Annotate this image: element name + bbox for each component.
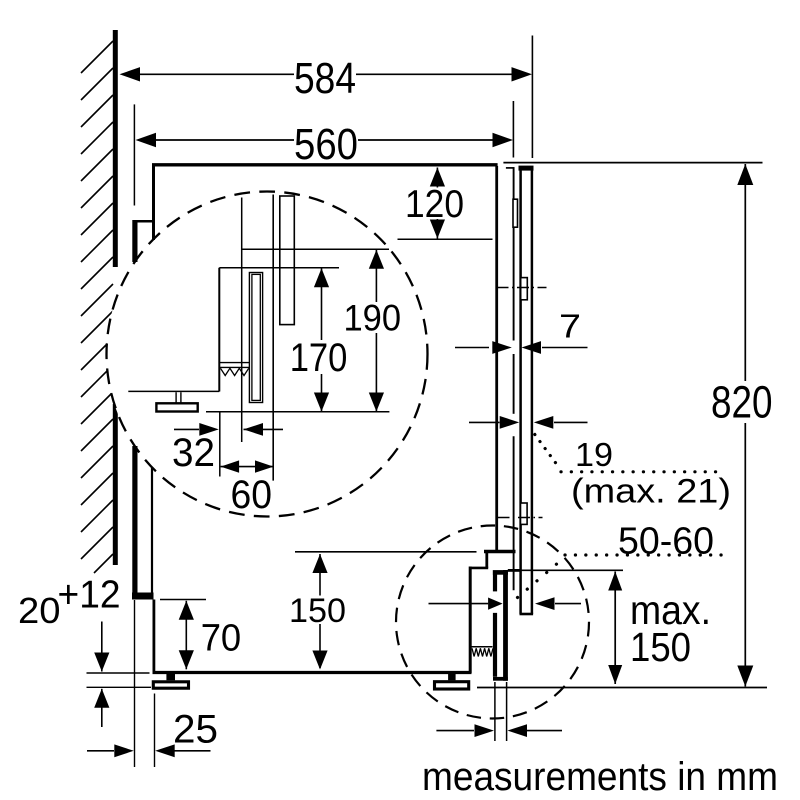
bottom serration teeth bbox=[472, 648, 493, 656]
detail slide rect outer bbox=[249, 273, 262, 403]
hinge 2 plate bbox=[521, 503, 528, 524]
hinge 1 plate bbox=[521, 278, 528, 300]
detail screw line B bbox=[272, 195, 274, 481]
svg-text:7: 7 bbox=[559, 308, 581, 345]
dim channel width (bottom) bbox=[436, 682, 562, 741]
dim max150 bbox=[608, 572, 622, 685]
dim 560 bbox=[134, 101, 513, 206]
bracket flange to panel bbox=[508, 569, 520, 572]
door panel bottom cap bbox=[520, 613, 534, 616]
detail serration teeth bbox=[221, 368, 249, 375]
detail bottom line bbox=[128, 390, 219, 392]
door panel left edge bbox=[519, 166, 522, 614]
channel bottom cap bbox=[493, 677, 508, 681]
dim 19 arrows bbox=[469, 416, 588, 429]
svg-text:50-60: 50-60 bbox=[618, 521, 714, 563]
svg-text:60: 60 bbox=[231, 473, 273, 517]
svg-text:70: 70 bbox=[201, 618, 242, 660]
dotted leader 19 bbox=[535, 435, 717, 472]
dim 50-60 arrows (bottom) bbox=[429, 597, 582, 610]
rear panel lower segment bbox=[132, 446, 137, 593]
dim 70 bbox=[160, 600, 206, 670]
svg-text:584: 584 bbox=[294, 54, 356, 103]
svg-text:820: 820 bbox=[711, 377, 773, 428]
detail slide rect inner bbox=[252, 274, 260, 400]
detail 190/170 bottom extension line bbox=[206, 411, 389, 413]
detail foot plate bbox=[156, 403, 197, 411]
svg-text:150: 150 bbox=[630, 624, 691, 670]
wall line lower segment bbox=[113, 404, 118, 565]
channel right wall bbox=[503, 570, 508, 681]
detail 170 extension line bbox=[219, 267, 339, 269]
svg-text:190: 190 bbox=[344, 298, 402, 339]
svg-text:120: 120 bbox=[405, 183, 464, 226]
left foot stem bbox=[166, 673, 175, 680]
door panel right edge bbox=[531, 166, 534, 614]
dim 190 bbox=[369, 250, 384, 412]
countertop underside line bbox=[503, 162, 762, 164]
floor line right bbox=[477, 687, 767, 689]
left foot plate bbox=[153, 682, 188, 688]
dim 584 bbox=[120, 36, 533, 159]
rear panel bottom cap bbox=[132, 593, 154, 600]
channel left wall lower bbox=[493, 613, 497, 677]
svg-text:+12: +12 bbox=[58, 574, 121, 617]
dim 20+12 lines bbox=[87, 622, 152, 728]
svg-text:20: 20 bbox=[18, 590, 61, 631]
channel left wall upper bbox=[493, 575, 497, 592]
dim 25 bbox=[87, 600, 211, 767]
svg-text:19: 19 bbox=[575, 437, 613, 474]
inner right line hook bbox=[506, 167, 515, 169]
detail circle content: screw line A bbox=[241, 198, 243, 443]
right foot stem bbox=[448, 672, 456, 680]
inner right line segments bbox=[513, 167, 515, 340]
dim 60 bbox=[221, 460, 274, 472]
wall hatching bbox=[81, 41, 113, 573]
detail fixing strip R1 bbox=[280, 196, 295, 325]
svg-text:32: 32 bbox=[172, 431, 215, 475]
detail circle (dashed) bbox=[107, 192, 428, 517]
right step bar bbox=[484, 550, 516, 554]
right lower wall bbox=[469, 567, 472, 674]
detail serration lines bbox=[219, 362, 249, 364]
detail top line H1 bbox=[242, 248, 389, 250]
white knockout of detail circle over wall bbox=[107, 192, 428, 517]
svg-text:25: 25 bbox=[173, 708, 218, 752]
right foot plate bbox=[435, 682, 469, 689]
label 190 bbox=[342, 298, 404, 339]
detail bracket left plate bbox=[218, 268, 220, 392]
appliance top edge bbox=[152, 163, 498, 166]
wall line upper segment bbox=[113, 30, 118, 267]
bracket flange extension line bbox=[520, 569, 624, 571]
rear panel upper segment bbox=[132, 220, 137, 262]
rear panel top cap bbox=[133, 220, 153, 223]
appliance right wall bbox=[495, 166, 498, 551]
dim 32 bbox=[174, 412, 283, 477]
bottom serration line bbox=[472, 646, 493, 648]
svg-text:560: 560 bbox=[294, 120, 358, 169]
bottom detail circle (dashed) bbox=[396, 526, 589, 719]
label 820 bbox=[709, 377, 775, 428]
svg-text:measurements in mm: measurements in mm bbox=[422, 755, 778, 799]
dim 820 bbox=[737, 164, 753, 687]
hinge upper latch rect bbox=[513, 199, 518, 227]
right step horizontal bbox=[469, 567, 488, 570]
appliance left wall upper bbox=[152, 164, 155, 241]
dim 120 bbox=[398, 168, 493, 240]
bottom bracket top cap bbox=[493, 570, 508, 575]
right step left vertical bbox=[485, 552, 488, 568]
detail foot stem bbox=[175, 392, 177, 403]
appliance bottom edge bbox=[153, 671, 472, 674]
svg-text:(max. 21): (max. 21) bbox=[571, 473, 731, 511]
dotted leader 50-60 bbox=[518, 555, 723, 598]
hinge 1 axis bbox=[497, 287, 547, 289]
svg-text:170: 170 bbox=[290, 336, 348, 380]
door panel top cap bbox=[519, 166, 534, 171]
label 150 left bbox=[287, 592, 348, 630]
label 120 bbox=[403, 183, 466, 226]
hinge 2 axis bbox=[498, 517, 543, 519]
dim 7 bbox=[455, 341, 588, 354]
dim 170 bbox=[314, 268, 329, 411]
dim 150 bbox=[295, 552, 477, 670]
appliance left wall lower thin bbox=[151, 467, 153, 593]
svg-text:150: 150 bbox=[289, 592, 346, 630]
appliance left wall bottom bbox=[152, 600, 155, 674]
label 170 bbox=[288, 336, 350, 380]
